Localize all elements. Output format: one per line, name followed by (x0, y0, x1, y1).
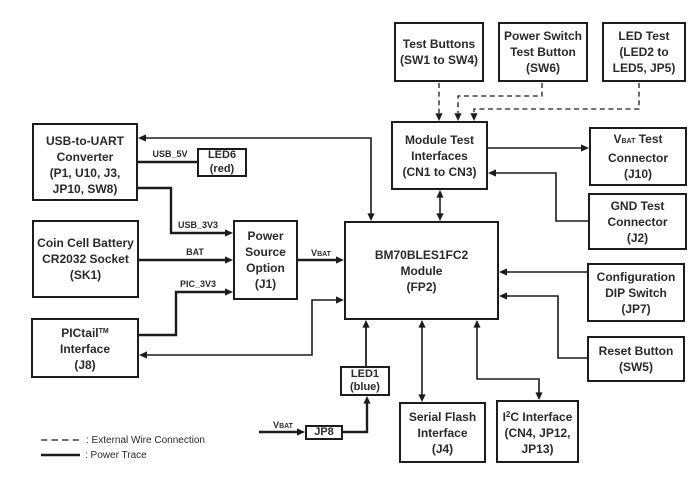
block I2C Interface CN4 JP12 JP13 (496, 400, 579, 463)
wire power trace PIC_3V3 PICtail Interface to Power Source Option (139, 288, 233, 335)
block Configuration DIP Switch JP7 (587, 263, 685, 322)
block Power Source Option J1 (233, 220, 298, 300)
block LED Test LED2-LED5 JP5 (602, 22, 686, 82)
net label USB_5V (146, 149, 194, 159)
block JP8 (305, 425, 343, 440)
legend solid line sample (41, 454, 80, 456)
wire Reset Button to BM70 module (499, 292, 587, 358)
block VBAT Test Connector J10 (589, 127, 687, 186)
net label VBAT at Power Source output (306, 248, 336, 258)
wire bidirectional BM70 module to PICtail Interface (139, 296, 344, 358)
block Module Test Interfaces CN1-CN3 (391, 121, 488, 190)
legend text power trace (85, 450, 147, 461)
block LED6 red (197, 148, 247, 177)
block LED1 blue (340, 366, 390, 396)
wire power trace USB_3V3 USB-to-UART to Power Source Option (138, 188, 233, 237)
wire power trace VBAT Power Source Option to BM70 module (298, 256, 344, 263)
wire double arrow Module Test Interfaces to BM70 module (436, 190, 443, 221)
wire double arrow BM70 module to Serial Flash Interface (418, 320, 425, 402)
block Coin Cell Battery CR2032 Socket SK1 (32, 220, 139, 298)
block PICtail Interface J8 (31, 318, 139, 378)
wire dashed Test Buttons to Module Test Interfaces (435, 83, 442, 121)
wire dashed LED Test to Module Test Interfaces (470, 83, 639, 121)
block USB-to-UART Converter P1 U10 J3 JP10 SW8 (32, 123, 138, 201)
wire dashed Power Switch Test Button to Module Test Interfaces (454, 83, 542, 121)
wire BM70 module to I2C Interface (473, 320, 542, 400)
wire power trace VBAT into JP8 (259, 428, 305, 435)
legend dashed line sample (41, 439, 80, 441)
wire power trace BAT Coin Cell Battery to Power Source Option (139, 256, 233, 263)
wire power trace JP8 to LED1 (343, 396, 371, 432)
block Reset Button SW5 (587, 336, 685, 382)
block Serial Flash Interface J4 (399, 402, 486, 463)
net label BAT (181, 247, 209, 257)
net label USB_3V3 (174, 220, 222, 230)
block BM70BLES1FC2 Module FP2 (344, 221, 499, 320)
legend text external wire connection (86, 435, 205, 446)
block GND Test Connector J2 (588, 193, 687, 250)
block Test Buttons SW1-SW4 (394, 22, 484, 82)
wire GND Test Connector to Module Test Interfaces (488, 169, 588, 221)
block Power Switch Test Button SW6 (498, 22, 588, 82)
wire UART bus BM70 module to USB-to-UART converter (138, 134, 375, 221)
wire Configuration DIP Switch to BM70 module (499, 268, 587, 275)
net label VBAT at JP8 input (268, 420, 298, 430)
wire LED1 to BM70 module (362, 320, 369, 366)
wire Module Test Interfaces to VBAT Test Connector (488, 144, 589, 151)
net label PIC_3V3 (176, 279, 220, 289)
wire power trace USB_5V USB-to-UART to LED6 (138, 161, 197, 163)
